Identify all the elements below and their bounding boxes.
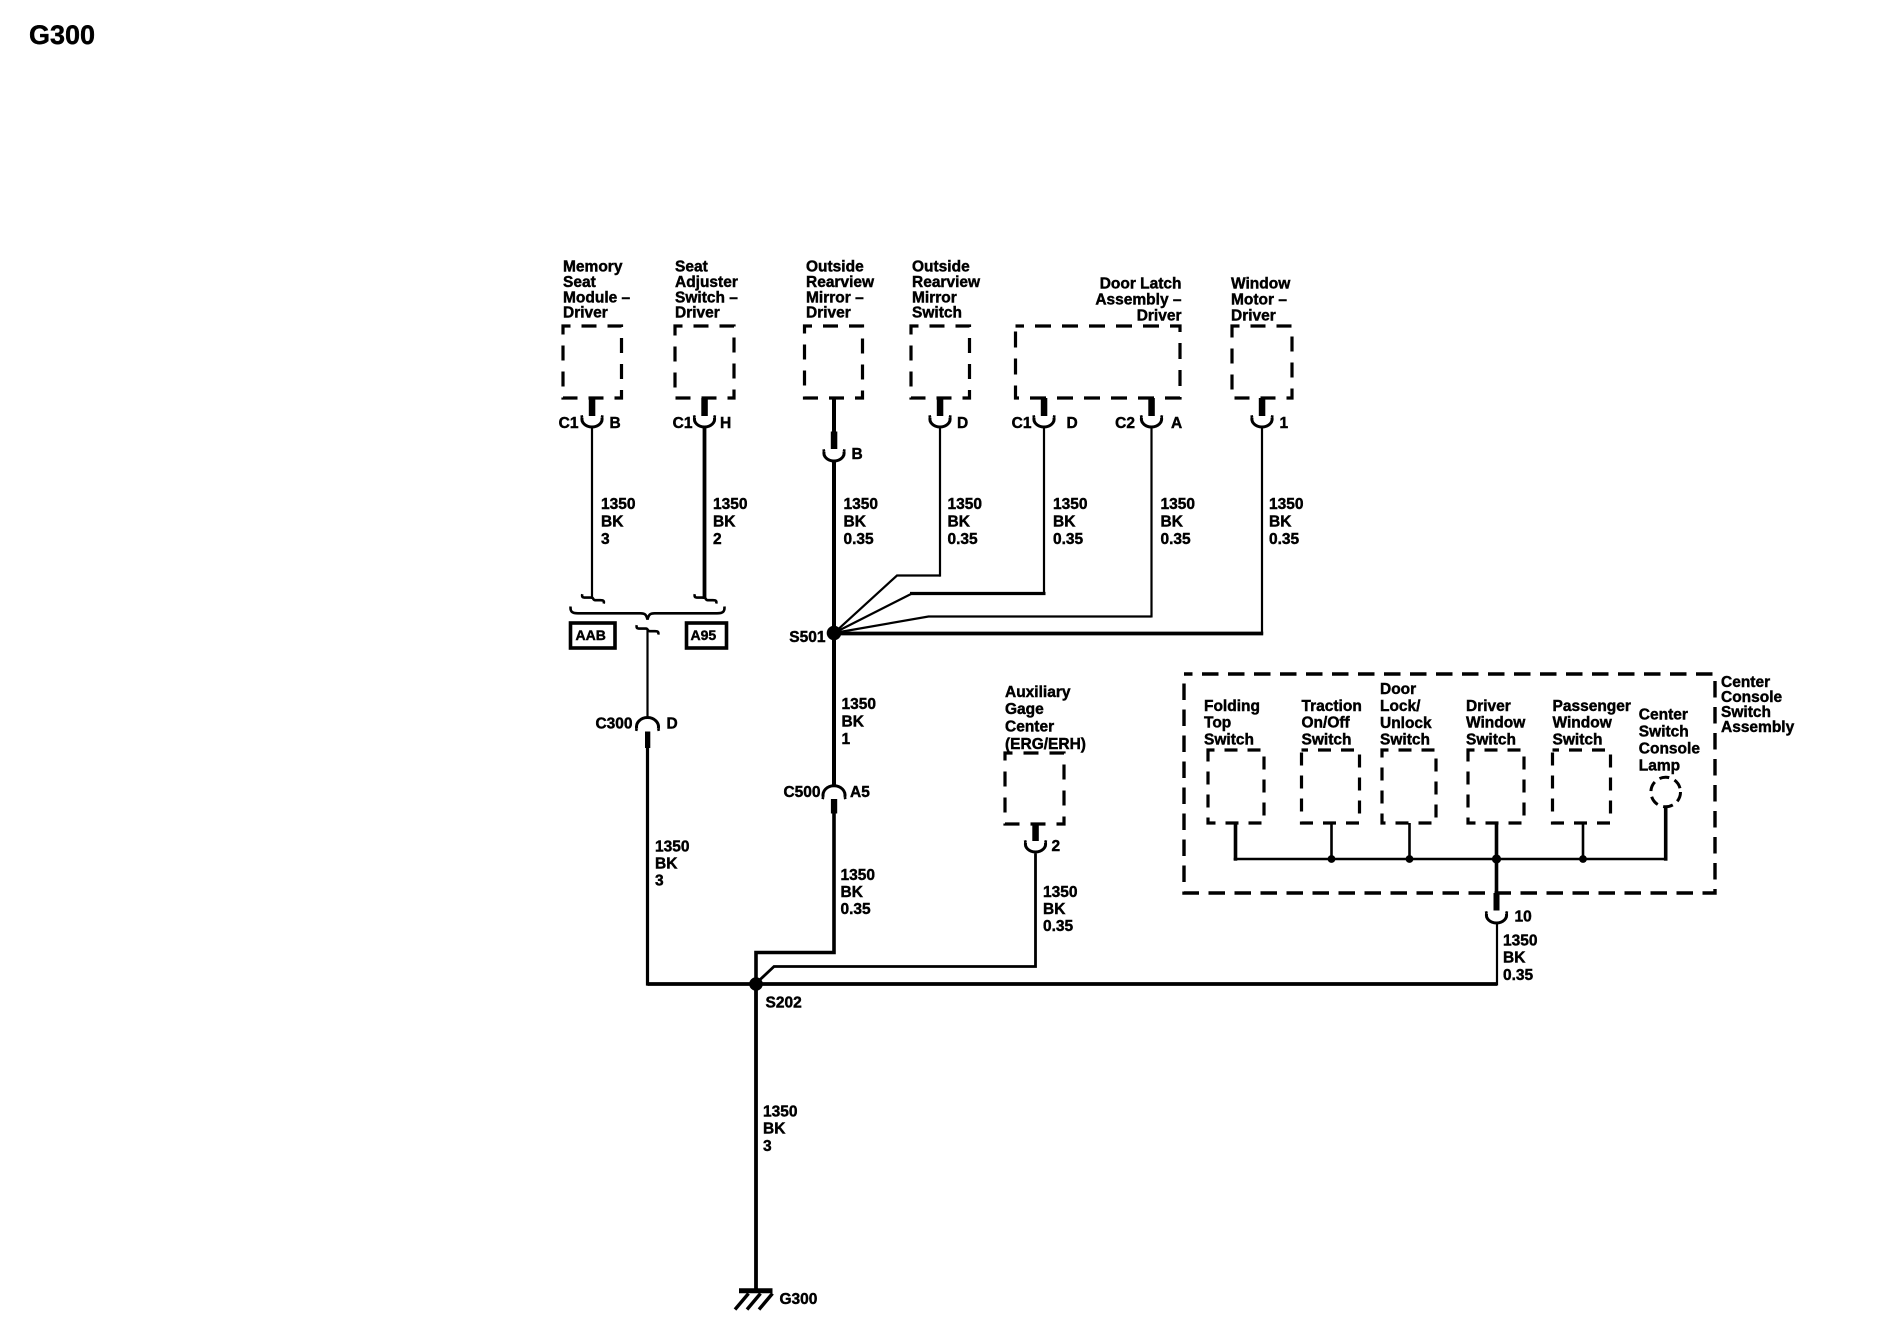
label Seat Adjuster Switch - Driver bbox=[675, 259, 738, 322]
wire 1350 BK 0.35 from Auxiliary Gage Center to S202 bbox=[757, 854, 1036, 983]
svg-text:1: 1 bbox=[842, 731, 851, 748]
svg-text:Window: Window bbox=[1231, 276, 1291, 293]
wire label 1350 BK 0.35 bbox=[1161, 496, 1195, 548]
svg-text:Center: Center bbox=[1005, 719, 1054, 736]
svg-text:S202: S202 bbox=[766, 995, 802, 1012]
svg-text:C2: C2 bbox=[1115, 415, 1135, 432]
svg-text:1350: 1350 bbox=[844, 496, 878, 513]
branch wire S501 to Door Latch C2-A bbox=[834, 617, 1152, 634]
pin C1-H of Seat Adjuster Switch bbox=[673, 398, 732, 432]
component box Seat Adjuster Switch - Driver bbox=[675, 326, 734, 398]
wire drop Center Switch Console Lamp bbox=[1664, 807, 1668, 861]
svg-text:1350: 1350 bbox=[713, 496, 747, 513]
svg-text:BK: BK bbox=[655, 855, 678, 872]
svg-text:Door Latch: Door Latch bbox=[1100, 276, 1182, 293]
svg-text:1350: 1350 bbox=[948, 496, 982, 513]
svg-text:Gage: Gage bbox=[1005, 701, 1044, 718]
svg-text:0.35: 0.35 bbox=[1269, 531, 1300, 548]
assembly box Center Console Switch Assembly bbox=[1184, 674, 1715, 893]
svg-text:Lock/: Lock/ bbox=[1380, 698, 1421, 715]
svg-text:Switch: Switch bbox=[1553, 731, 1603, 748]
switch box Folding Top Switch bbox=[1208, 750, 1264, 823]
svg-text:Driver: Driver bbox=[675, 305, 720, 322]
branch wire S501 to Door Latch C1-D bbox=[834, 594, 912, 634]
svg-text:Top: Top bbox=[1204, 715, 1231, 732]
svg-text:Driver: Driver bbox=[563, 305, 608, 322]
svg-text:2: 2 bbox=[713, 531, 722, 548]
svg-text:1350: 1350 bbox=[763, 1104, 797, 1121]
svg-text:0.35: 0.35 bbox=[841, 901, 872, 918]
pin C1-D of Door Latch Assembly bbox=[1012, 398, 1078, 432]
svg-text:1350: 1350 bbox=[1161, 496, 1195, 513]
component box Window Motor - Driver bbox=[1232, 326, 1292, 398]
svg-text:(ERG/ERH): (ERG/ERH) bbox=[1005, 736, 1086, 753]
component box Memory Seat Module - Driver bbox=[563, 326, 622, 398]
wire label 1350 BK 0.35 bbox=[1503, 933, 1537, 985]
terminal squiggle at end of wire 1 bbox=[582, 594, 604, 603]
branch wire S501 to Outside Rearview Mirror Switch bbox=[834, 576, 940, 634]
svg-text:BK: BK bbox=[948, 514, 971, 531]
wire label 1350 BK 3 bbox=[601, 496, 635, 548]
svg-text:Assembly –: Assembly – bbox=[1095, 292, 1182, 309]
inline connector B on Outside Rearview Mirror Driver wire bbox=[824, 432, 863, 464]
svg-text:Console: Console bbox=[1639, 741, 1701, 758]
wire 1350 BK 3 from C300 down to S202 bbox=[646, 747, 649, 986]
svg-text:C1: C1 bbox=[559, 415, 579, 432]
svg-text:BK: BK bbox=[844, 514, 867, 531]
pin C2-A of Door Latch Assembly bbox=[1115, 398, 1182, 432]
wire 1350 BK 0.35 from connector B down to S501 bbox=[832, 460, 836, 635]
svg-text:C500: C500 bbox=[783, 784, 820, 801]
component box Outside Rearview Mirror Switch bbox=[911, 326, 970, 398]
label Outside Rearview Mirror Switch bbox=[912, 259, 981, 322]
wire drop Folding Top Switch bbox=[1234, 823, 1238, 861]
wire label 1350 BK 0.35 bbox=[841, 867, 875, 918]
component box Auxiliary Gage Center bbox=[1005, 753, 1064, 824]
svg-text:AAB: AAB bbox=[576, 627, 606, 643]
svg-text:Unlock: Unlock bbox=[1380, 715, 1432, 732]
wire 1350 BK 0.35 from C500 down to S202 bbox=[756, 812, 834, 984]
wire label 1350 BK 0.35 bbox=[1053, 496, 1087, 548]
ground bus inside assembly bbox=[1234, 858, 1668, 861]
svg-text:BK: BK bbox=[842, 714, 865, 731]
splice S202 bbox=[749, 977, 802, 1011]
svg-text:BK: BK bbox=[1053, 514, 1076, 531]
junction dot Passenger Window bbox=[1579, 855, 1587, 863]
pin 1 of Window Motor bbox=[1252, 398, 1289, 432]
wire 1350 BK 1 from S501 to C500 bbox=[832, 635, 836, 788]
svg-text:Assembly: Assembly bbox=[1721, 719, 1795, 736]
svg-text:BK: BK bbox=[713, 514, 736, 531]
svg-text:1: 1 bbox=[1280, 415, 1289, 432]
svg-text:Motor –: Motor – bbox=[1231, 292, 1287, 309]
svg-text:A95: A95 bbox=[691, 627, 717, 643]
svg-text:D: D bbox=[667, 716, 678, 733]
svg-text:C300: C300 bbox=[595, 716, 632, 733]
svg-text:Switch: Switch bbox=[912, 305, 962, 322]
label Window Motor - Driver bbox=[1231, 276, 1291, 325]
svg-text:C1: C1 bbox=[673, 415, 693, 432]
svg-text:Driver: Driver bbox=[1466, 698, 1511, 715]
wire drop Door Lock/Unlock Switch bbox=[1408, 823, 1411, 859]
svg-text:S501: S501 bbox=[789, 629, 826, 646]
svg-text:Folding: Folding bbox=[1204, 698, 1260, 715]
svg-text:Window: Window bbox=[1466, 715, 1526, 732]
label Auxiliary Gage Center (ERG/ERH) bbox=[1005, 684, 1086, 753]
svg-text:0.35: 0.35 bbox=[844, 531, 875, 548]
splice pack code box A95 bbox=[687, 623, 727, 648]
wire label 1350 BK 0.35 bbox=[1043, 884, 1077, 935]
label Driver Window Switch bbox=[1466, 698, 1526, 749]
wire label 1350 BK 0.35 bbox=[1269, 496, 1303, 548]
wire from Outside Rearview Mirror Driver to connector B bbox=[832, 398, 836, 433]
svg-text:BK: BK bbox=[601, 514, 624, 531]
wire 1350 BK 0.35 from Door Latch C1-D bbox=[1043, 427, 1045, 595]
branch wire S501 to Window Motor pin 1 bbox=[834, 632, 1263, 636]
svg-text:Center: Center bbox=[1639, 707, 1688, 724]
svg-text:B: B bbox=[610, 415, 621, 432]
svg-text:3: 3 bbox=[655, 872, 664, 889]
switch box Door Lock/Unlock Switch bbox=[1382, 750, 1436, 823]
switch box Driver Window Switch bbox=[1468, 750, 1524, 823]
lamp Center Switch Console Lamp bbox=[1651, 777, 1681, 807]
label Center Console Switch Assembly bbox=[1721, 674, 1795, 736]
wire 1350 BK 0.35 from Window Motor pin 1 bbox=[1261, 427, 1263, 635]
label Traction On/Off Switch bbox=[1302, 698, 1362, 749]
svg-text:0.35: 0.35 bbox=[1043, 918, 1074, 935]
svg-text:3: 3 bbox=[763, 1138, 772, 1155]
svg-text:1350: 1350 bbox=[655, 838, 689, 855]
splice pack code box AAB bbox=[571, 623, 616, 648]
label Door Latch Assembly - Driver bbox=[1095, 276, 1182, 325]
svg-text:0.35: 0.35 bbox=[1503, 967, 1534, 984]
svg-text:A5: A5 bbox=[850, 784, 870, 801]
svg-text:1350: 1350 bbox=[842, 696, 876, 713]
svg-text:Window: Window bbox=[1553, 715, 1613, 732]
junction dot Traction bbox=[1328, 855, 1336, 863]
label Center Switch Console Lamp bbox=[1639, 707, 1701, 775]
ground symbol G300 bbox=[735, 1291, 773, 1310]
terminal squiggle at end of wire 2 bbox=[695, 594, 717, 603]
svg-text:G300: G300 bbox=[780, 1291, 818, 1308]
wire label 1350 BK 1 bbox=[842, 696, 876, 748]
svg-text:Driver: Driver bbox=[1231, 308, 1276, 325]
wire label 1350 BK 2 bbox=[713, 496, 747, 548]
svg-text:Switch: Switch bbox=[1204, 731, 1254, 748]
svg-text:BK: BK bbox=[1161, 514, 1184, 531]
label Outside Rearview Mirror - Driver bbox=[806, 259, 875, 322]
svg-text:BK: BK bbox=[1269, 514, 1292, 531]
svg-text:Lamp: Lamp bbox=[1639, 758, 1680, 775]
svg-text:1350: 1350 bbox=[601, 496, 635, 513]
svg-text:1350: 1350 bbox=[1503, 933, 1537, 950]
svg-text:BK: BK bbox=[763, 1121, 786, 1138]
inline connector C300 pin D bbox=[595, 716, 677, 749]
label Door Lock/Unlock Switch bbox=[1380, 681, 1432, 748]
svg-text:Traction: Traction bbox=[1302, 698, 1362, 715]
svg-text:G300: G300 bbox=[29, 20, 95, 50]
svg-text:BK: BK bbox=[841, 884, 864, 901]
wire drop Driver Window Switch bbox=[1495, 823, 1499, 893]
svg-text:Driver: Driver bbox=[1137, 308, 1182, 325]
wire from brace to C300 bbox=[646, 630, 648, 719]
svg-text:0.35: 0.35 bbox=[1053, 531, 1084, 548]
svg-text:Switch: Switch bbox=[1380, 732, 1430, 749]
svg-text:1350: 1350 bbox=[841, 867, 875, 884]
svg-text:Switch: Switch bbox=[1639, 724, 1689, 741]
svg-text:0.35: 0.35 bbox=[948, 531, 979, 548]
wire label 1350 BK 3 bbox=[655, 838, 689, 889]
pin D of Outside Rearview Mirror Switch bbox=[930, 398, 969, 432]
svg-text:10: 10 bbox=[1515, 909, 1532, 926]
switch box Passenger Window Switch bbox=[1553, 750, 1611, 823]
label Folding Top Switch bbox=[1204, 698, 1260, 749]
wire 1350 BK 0.35 from Door Latch C2-A bbox=[1150, 427, 1152, 618]
brace joining terminals to splice pack bbox=[571, 607, 725, 620]
svg-text:1350: 1350 bbox=[1269, 496, 1303, 513]
terminal squiggle below brace bbox=[637, 625, 659, 634]
component box Outside Rearview Mirror - Driver bbox=[805, 326, 863, 398]
label Memory Seat Module - Driver bbox=[563, 259, 631, 322]
wire 1350 BK 3 from Memory Seat Module bbox=[591, 427, 593, 599]
switch box Traction On/Off Switch bbox=[1302, 750, 1360, 823]
svg-text:Passenger: Passenger bbox=[1553, 698, 1631, 715]
splice S501 bbox=[789, 626, 841, 646]
junction dot Driver Window bbox=[1492, 854, 1501, 863]
svg-text:BK: BK bbox=[1043, 901, 1066, 918]
svg-text:On/Off: On/Off bbox=[1302, 715, 1351, 732]
wire drop Traction On/Off Switch bbox=[1330, 823, 1333, 859]
svg-text:B: B bbox=[852, 446, 863, 463]
svg-text:D: D bbox=[1067, 415, 1078, 432]
svg-text:Auxiliary: Auxiliary bbox=[1005, 684, 1071, 701]
svg-text:1350: 1350 bbox=[1053, 496, 1087, 513]
svg-text:3: 3 bbox=[601, 531, 610, 548]
wire horizontal run through S202 bbox=[648, 982, 1498, 986]
junction dot Door Lock bbox=[1406, 855, 1414, 863]
wire drop Passenger Window Switch bbox=[1582, 823, 1585, 859]
label Passenger Window Switch bbox=[1553, 698, 1631, 749]
svg-text:Switch: Switch bbox=[1466, 731, 1516, 748]
svg-text:H: H bbox=[720, 415, 731, 432]
wire 1350 BK 2 from Seat Adjuster Switch bbox=[703, 427, 707, 599]
component box Door Latch Assembly - Driver bbox=[1016, 326, 1181, 398]
svg-text:Door: Door bbox=[1380, 681, 1416, 698]
pin C1-B of Memory Seat Module bbox=[559, 398, 621, 432]
wire 1350 BK 3 from S202 to ground G300 bbox=[754, 984, 758, 1289]
svg-text:C1: C1 bbox=[1012, 415, 1032, 432]
pin 10 of Center Console Switch Assembly bbox=[1486, 893, 1532, 926]
svg-text:Switch: Switch bbox=[1302, 731, 1352, 748]
svg-text:2: 2 bbox=[1052, 838, 1061, 855]
pin 2 of Auxiliary Gage Center bbox=[1025, 824, 1060, 855]
svg-text:BK: BK bbox=[1503, 950, 1526, 967]
wire label 1350 BK 0.35 bbox=[948, 496, 982, 548]
wire 1350 BK 0.35 from Outside Rearview Mirror Switch bbox=[939, 427, 941, 577]
wire label 1350 BK 0.35 bbox=[844, 496, 878, 548]
svg-text:Driver: Driver bbox=[806, 305, 851, 322]
wire 1350 BK 0.35 from pin 10 down to S202 run bbox=[1496, 923, 1498, 986]
svg-text:1350: 1350 bbox=[1043, 884, 1077, 901]
svg-text:0.35: 0.35 bbox=[1161, 531, 1192, 548]
wire label 1350 BK 3 bbox=[763, 1104, 797, 1156]
svg-text:D: D bbox=[957, 415, 968, 432]
inline connector C500 pin A5 bbox=[783, 784, 870, 814]
svg-text:A: A bbox=[1171, 415, 1182, 432]
